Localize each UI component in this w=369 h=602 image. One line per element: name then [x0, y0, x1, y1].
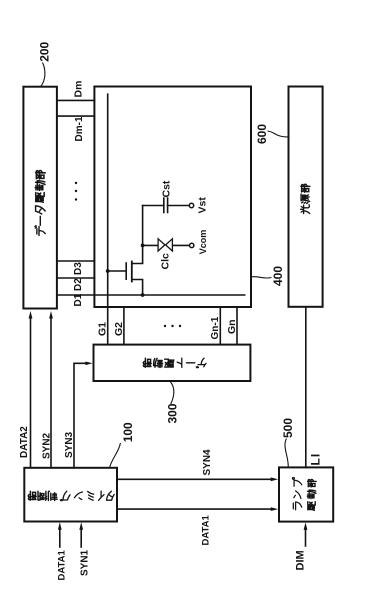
wire DATA2: [30, 318, 32, 468]
wire SYN4: [117, 478, 272, 480]
wire gate line G2: [123, 307, 125, 345]
wire SYN1 input: [80, 528, 82, 547]
label gate-driver text ゲート駆動部 (180deg): [143, 358, 206, 368]
wire drain node to Clc: [143, 244, 159, 246]
label timing-controller text タイミング制御部 (180deg): [28, 491, 114, 501]
svg-text:LI: LI: [308, 453, 322, 466]
lamp driver box 500: [279, 467, 333, 521]
svg-text:100: 100: [121, 422, 135, 442]
wire gate line G1: [107, 94, 109, 344]
arrowhead SYN4: [271, 477, 279, 481]
leader 200: [41, 63, 45, 87]
wire data line D1: [57, 294, 245, 296]
svg-text:DATA2: DATA2: [19, 426, 30, 458]
leader 300: [170, 381, 174, 404]
svg-text:600: 600: [255, 124, 269, 144]
svg-text:DATA1: DATA1: [56, 550, 67, 581]
wire DIM input: [305, 527, 307, 546]
label light-source text 光源部: [301, 184, 310, 213]
svg-text:D3: D3: [73, 262, 84, 275]
light source box 600: [289, 87, 323, 307]
wire gate line Gn-1: [219, 307, 221, 345]
wire SYN3: [74, 363, 86, 468]
svg-text:G1: G1: [97, 322, 109, 336]
node dot drain junction: [141, 244, 145, 248]
leader 500: [285, 439, 288, 468]
svg-text:Cst: Cst: [161, 180, 173, 197]
svg-text:200: 200: [38, 41, 52, 61]
svg-text:500: 500: [281, 418, 295, 438]
capacitor Cst plates: [164, 198, 168, 213]
wire gate line Gn: [236, 307, 238, 345]
node dot source on D1: [141, 293, 145, 297]
wire to Cst: [143, 205, 164, 207]
wire data line Dm: [57, 99, 95, 101]
svg-text:Gn: Gn: [226, 319, 238, 334]
transistor TFT channel bar: [131, 262, 133, 282]
svg-text:D1: D1: [73, 293, 84, 306]
wire SYN2: [50, 318, 52, 468]
arrowhead SYN3: [85, 362, 92, 366]
leader 600: [268, 131, 290, 137]
wire data line D3: [57, 260, 95, 262]
arrowhead DIM input: [304, 522, 308, 530]
transistor TFT source arm: [132, 280, 143, 296]
transistor TFT gate bar: [125, 263, 127, 279]
dots gate ellipsis: [164, 325, 166, 327]
svg-text:300: 300: [166, 403, 180, 423]
arrowhead SYN2: [49, 311, 53, 319]
terminal Vcom: [190, 243, 194, 247]
label lamp-driver text ランプ/駆動部: [292, 477, 316, 510]
leader 100: [110, 443, 121, 468]
wire Clc to Vcom terminal: [172, 244, 189, 246]
panel box 400: [94, 87, 251, 308]
transistor TFT gate stub: [108, 270, 126, 272]
leader 400: [251, 277, 272, 278]
label data-driver text データ駆動部: [35, 170, 45, 235]
wire data line D2: [57, 277, 95, 279]
capacitor Clc bowtie: [158, 239, 172, 251]
svg-text:Vst: Vst: [197, 197, 209, 214]
svg-text:SYN2: SYN2: [42, 432, 53, 459]
arrowhead SYN1 input: [79, 522, 83, 530]
gate driver box 300: [94, 345, 251, 381]
svg-text:SYN1: SYN1: [79, 549, 90, 576]
data driver box 200: [23, 87, 57, 309]
svg-text:400: 400: [271, 266, 285, 286]
svg-text:DIM: DIM: [294, 550, 306, 570]
svg-text:DATA1: DATA1: [200, 515, 211, 546]
svg-text:Dm: Dm: [73, 81, 85, 98]
wire data line Dm-1: [57, 115, 95, 117]
wire DATA1 mid: [117, 508, 272, 510]
wire DATA1 input: [59, 528, 61, 547]
svg-text:SYN4: SYN4: [202, 449, 213, 476]
svg-text:Gn-1: Gn-1: [210, 316, 221, 339]
arrowhead DATA1 input: [58, 522, 62, 530]
timing controller box 100: [24, 468, 117, 522]
svg-text:G2: G2: [113, 322, 125, 336]
wire Cst to Vst terminal: [168, 205, 190, 207]
svg-text:D2: D2: [73, 278, 84, 291]
terminal Vst: [189, 203, 193, 207]
svg-text:Dm-1: Dm-1: [74, 116, 85, 141]
node dot gate junction: [106, 269, 110, 273]
arrowhead DATA1 mid: [271, 507, 279, 511]
arrowhead DATA2: [29, 311, 33, 319]
svg-text:Clc: Clc: [160, 253, 172, 270]
svg-text:SYN3: SYN3: [64, 431, 75, 458]
dots data ellipsis: [75, 182, 77, 184]
wire LI: [305, 307, 307, 468]
transistor TFT drain arm: [132, 206, 143, 264]
svg-text:Vcom: Vcom: [198, 230, 208, 255]
